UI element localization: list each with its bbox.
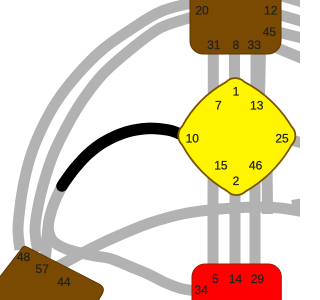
wire channel 46-29 — [250, 148, 261, 266]
wire channel 15-5 — [208, 160, 219, 266]
svg-text:5: 5 — [212, 272, 219, 286]
svg-text:15: 15 — [214, 158, 228, 172]
svg-text:2: 2 — [233, 174, 240, 188]
svg-text:13: 13 — [250, 99, 264, 113]
svg-text:1: 1 — [233, 85, 240, 99]
wire channel 45-21 right — [280, 33, 306, 40]
wire channel 10-57 — [46, 128, 181, 258]
svg-text:25: 25 — [275, 131, 289, 145]
spleen center — [0, 246, 103, 300]
wire channel 45-21 — [260, 50, 261, 97]
svg-text:44: 44 — [57, 275, 71, 289]
svg-text:29: 29 — [251, 272, 265, 286]
svg-text:46: 46 — [249, 158, 263, 172]
svg-text:31: 31 — [207, 38, 221, 52]
wire channel 20-57 — [35, 17, 192, 252]
wire channel 36-35 lower — [276, 48, 306, 61]
wire channel 33-13 — [251, 54, 262, 110]
sacral center — [192, 264, 281, 300]
wire channel 34-10 — [48, 186, 194, 291]
svg-text:8: 8 — [232, 38, 239, 52]
wire channel 2-14 — [230, 183, 241, 266]
wire channel 35-36 — [282, 0, 306, 3]
svg-text:12: 12 — [264, 3, 278, 17]
svg-text:45: 45 — [263, 25, 277, 39]
wire channel 44-26 — [55, 207, 302, 268]
svg-text:20: 20 — [195, 4, 209, 18]
svg-text:14: 14 — [229, 272, 243, 286]
svg-text:10: 10 — [186, 131, 200, 145]
G center — [178, 78, 295, 195]
svg-text:34: 34 — [195, 283, 209, 297]
svg-text:33: 33 — [248, 38, 262, 52]
wire channel 16-48 — [18, 3, 192, 250]
svg-text:7: 7 — [215, 99, 222, 113]
throat center — [190, 0, 281, 54]
svg-text:48: 48 — [17, 250, 31, 264]
wire channel 45-21 to heart — [262, 150, 274, 214]
wire channel 12-22 — [280, 15, 306, 23]
svg-text:57: 57 — [36, 262, 50, 276]
wire channel 31-7 — [208, 54, 219, 115]
wire channel 25-51 — [289, 140, 306, 145]
gate 10 activated channel (black) — [62, 128, 180, 186]
wire channel 8-1 — [229, 54, 240, 92]
wire channel 37-40 stub — [292, 202, 306, 205]
